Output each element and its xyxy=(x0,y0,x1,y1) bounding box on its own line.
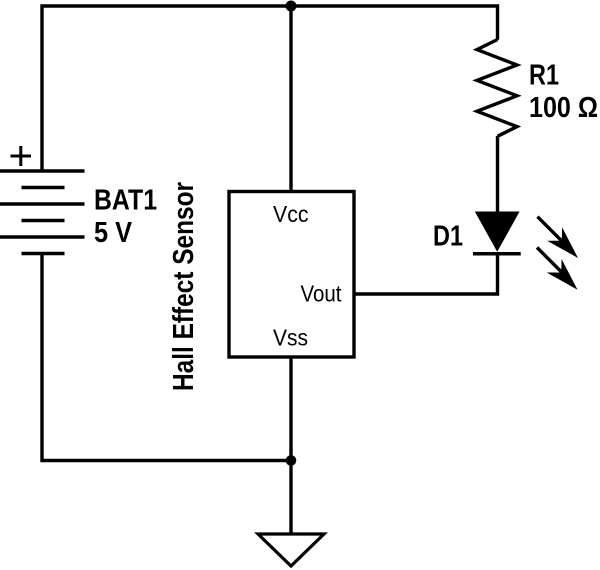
wire from LED cathode down and left to sensor Vout pin xyxy=(354,254,498,295)
battery BAT1 plus sign xyxy=(11,146,32,166)
svg-text:100 Ω: 100 Ω xyxy=(529,92,598,124)
wire from top junction down to sensor Vcc pin xyxy=(289,6,292,192)
svg-text:Vout: Vout xyxy=(301,281,343,307)
ground xyxy=(258,534,324,566)
wire from resistor bottom to LED anode xyxy=(496,136,499,213)
svg-text:Vss: Vss xyxy=(273,325,308,351)
svg-text:Vcc: Vcc xyxy=(273,201,309,227)
hall effect sensor U1 box xyxy=(229,192,354,358)
svg-text:5 V: 5 V xyxy=(94,217,133,249)
wire from battery negative down and right to bottom junction xyxy=(42,254,291,461)
wire from bottom junction down to ground xyxy=(289,461,292,535)
wire from top junction right to resistor top xyxy=(291,6,498,40)
LED D1 triangle xyxy=(475,212,520,252)
node bottom junction xyxy=(286,455,297,466)
node top junction xyxy=(286,1,297,12)
battery BAT1 plates xyxy=(0,171,85,254)
svg-text:Hall Effect Sensor: Hall Effect Sensor xyxy=(168,182,200,391)
LED D1 light arrow 1 head xyxy=(547,227,578,258)
wire from battery positive up and across top to junction xyxy=(42,6,291,171)
LED D1 light arrow 2 shaft xyxy=(537,248,565,276)
LED D1 light arrow 1 shaft xyxy=(538,217,566,245)
resistor R1 zigzag xyxy=(477,40,517,137)
LED D1 cathode bar xyxy=(473,252,521,256)
svg-text:D1: D1 xyxy=(433,220,463,252)
LED D1 light arrow 2 head xyxy=(547,259,578,290)
wire from sensor Vss pin down to bottom junction xyxy=(289,357,292,461)
svg-text:R1: R1 xyxy=(529,59,559,91)
svg-text:BAT1: BAT1 xyxy=(94,184,157,216)
